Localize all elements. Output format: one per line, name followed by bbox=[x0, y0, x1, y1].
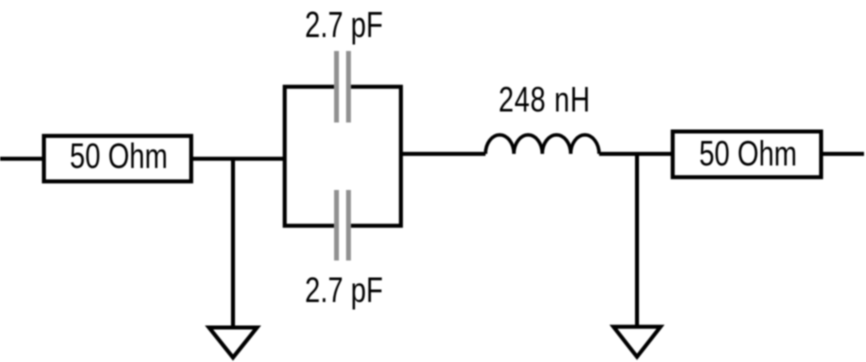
wire right output stub bbox=[821, 152, 864, 156]
wire inductor to node B bbox=[599, 152, 673, 156]
wire left input stub bbox=[0, 157, 44, 161]
svg-text:2.7 pF: 2.7 pF bbox=[305, 5, 383, 45]
wire loop to inductor bbox=[401, 152, 486, 156]
ground (left) bbox=[209, 328, 257, 358]
inductor L1 248 nH bbox=[486, 135, 600, 154]
resistor R2 50 Ohm (right load impedance box) bbox=[673, 132, 821, 178]
resistor R1 50 Ohm (left source impedance box) bbox=[44, 136, 191, 182]
svg-text:2.7 pF: 2.7 pF bbox=[305, 270, 383, 310]
svg-text:50 Ohm: 50 Ohm bbox=[70, 136, 168, 176]
wire node B down to ground bbox=[635, 154, 639, 327]
capacitor C2 2.7 pF (bottom branch plates) bbox=[334, 190, 339, 261]
wire from R1 to node A bbox=[191, 157, 285, 161]
wire loop frame left half (capacitor branch frame) bbox=[285, 87, 334, 226]
ground (right) bbox=[614, 327, 661, 357]
wire loop frame right half (capacitor branch frame) bbox=[351, 87, 401, 226]
svg-text:50 Ohm: 50 Ohm bbox=[699, 133, 797, 173]
svg-text:248 nH: 248 nH bbox=[499, 79, 591, 119]
wire node A down to ground bbox=[231, 159, 235, 328]
capacitor C1 2.7 pF (top branch plates) bbox=[334, 51, 339, 123]
